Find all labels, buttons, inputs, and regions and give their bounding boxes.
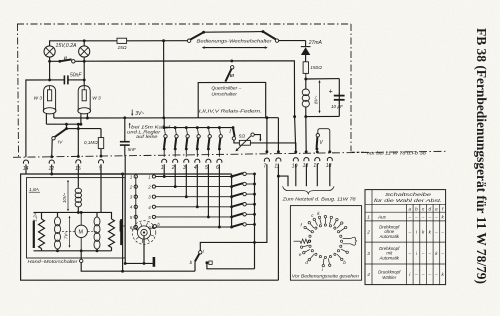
node lamp1/switch II	[48, 60, 51, 63]
node tube2 top junction	[83, 78, 86, 81]
node chassis 9	[100, 155, 103, 158]
motor switch blade 2	[230, 185, 233, 188]
capacitor bar bottom	[153, 257, 156, 267]
wire 0,1M to terminal 9	[100, 149, 102, 158]
node bus2 switch IV stub	[65, 123, 68, 126]
wire motor output stub	[80, 251, 82, 259]
terminal 6	[217, 159, 222, 163]
wire b down	[194, 261, 196, 271]
relay contact 1	[164, 128, 165, 135]
motor output contact	[80, 259, 83, 262]
lamp La1 15V 0,2A	[44, 46, 55, 57]
tube W3 left	[44, 86, 56, 111]
relay contact 4	[196, 126, 199, 129]
node bus1 wire7 junction	[265, 116, 268, 119]
relay contact 5	[207, 126, 210, 129]
node bus1 5nF junction	[123, 116, 126, 119]
chassis dash-dot line	[13, 151, 446, 157]
wire 7 drop	[266, 118, 268, 152]
wire IV pivot to 0,1M	[78, 128, 101, 130]
potentiometer 5 Ohm	[239, 140, 250, 145]
wire 11 branch to brace	[278, 176, 288, 186]
terminal 4	[195, 159, 200, 163]
wire switch II to lamp2	[75, 60, 84, 62]
switch II contact	[72, 60, 75, 63]
resistor 150 Ohm	[303, 62, 308, 74]
capacitor bar right	[120, 219, 122, 245]
wire i-contact up	[200, 242, 254, 250]
wire terminal 1 to matrix	[163, 164, 165, 176]
wire lamp2 top	[83, 41, 85, 46]
wire terminal 10 down	[295, 164, 297, 186]
wire 50nF right	[69, 79, 85, 81]
wire terminal 2 to matrix	[174, 164, 176, 186]
node V chassis 18	[328, 150, 331, 153]
node column top	[121, 173, 124, 176]
switch V contact	[316, 134, 319, 137]
wire terminal 15 down	[77, 164, 79, 188]
tube2 lead left	[80, 113, 82, 124]
wire coil box left down to terminal 10	[295, 117, 296, 152]
node tube2 right lead	[86, 117, 89, 120]
selector column wire	[135, 177, 137, 228]
wire lamp1 bottom	[49, 57, 51, 80]
node changeover left	[202, 31, 205, 34]
relay rail	[164, 127, 233, 129]
wire IV contact to terminal 12	[51, 140, 54, 158]
node lamp2 bottom junction	[83, 60, 86, 63]
winding right	[96, 212, 98, 217]
node matrix 2	[174, 185, 177, 188]
wire lamp2 down to tube2	[83, 57, 85, 86]
slider bar left	[33, 221, 35, 248]
contact a square	[209, 261, 212, 264]
wire terminal 9 down	[100, 164, 102, 212]
node matrix 6	[218, 226, 221, 229]
wire switch I to pot	[234, 140, 240, 143]
resistor right	[111, 212, 113, 219]
motor switch blade 3	[230, 195, 233, 198]
box Quecksilber-Umschalter	[198, 82, 266, 117]
chassis bar stub	[122, 225, 125, 227]
switch I contact	[232, 137, 235, 140]
node switch III top	[230, 59, 233, 62]
wire rectifier branch to chassis	[305, 117, 307, 152]
wire motor output down	[81, 263, 195, 272]
brace	[283, 186, 334, 193]
winding left	[57, 212, 59, 217]
terminal 15	[76, 160, 81, 164]
coil box top wire	[306, 78, 340, 80]
node coil box left corner	[293, 115, 296, 118]
node matrix 5	[207, 215, 210, 218]
wire column drop	[122, 174, 124, 271]
terminal 3	[184, 159, 189, 163]
dash-dot border left	[18, 24, 19, 157]
tube2 lead right	[86, 113, 88, 118]
terminal 17	[315, 157, 320, 161]
changeover blade left	[190, 32, 203, 39]
node column drop join	[121, 270, 124, 273]
dial contact ring	[324, 224, 326, 226]
wire terminal 18 down	[329, 164, 331, 187]
wire drop to relay rail	[163, 41, 165, 118]
motor switch blade 1	[230, 175, 233, 178]
node matrix 4	[196, 205, 199, 208]
relay contact 1 stub to bus1	[163, 118, 165, 128]
switch V bracket	[318, 129, 330, 152]
relay contact 2	[174, 126, 177, 129]
dimension arrow 10V	[67, 181, 69, 211]
resistor 0,1 MOhm	[98, 138, 103, 149]
capacitor 10uF	[338, 93, 340, 96]
node rectifier/chassis	[305, 150, 308, 153]
terminal 11	[276, 158, 281, 162]
node wire7 chassis	[265, 150, 268, 153]
contact a dot	[205, 261, 208, 264]
node lamp2 top	[83, 39, 86, 42]
wire cathode bus1	[54, 117, 279, 119]
capacitor 50nF	[63, 75, 65, 84]
lamp La2 15V 0,2A	[79, 46, 90, 57]
terminal 18	[327, 157, 332, 161]
node bus2 to terminal 15	[77, 127, 80, 130]
wire terminal 14 down	[25, 165, 27, 175]
switch IV contact	[52, 137, 55, 140]
coil box right wire	[338, 79, 340, 117]
dimension arrow 8V	[319, 81, 321, 113]
box dial	[290, 206, 361, 281]
dial resistor right	[343, 237, 357, 245]
resistor 15 Ohm	[117, 38, 127, 43]
wire terminal 3 to matrix	[185, 164, 187, 196]
motor switch blade 4	[230, 205, 233, 208]
switch IV stub	[66, 124, 68, 128]
box Hand-Motorschalter	[27, 178, 126, 258]
wire top rail	[50, 41, 117, 46]
node top wire / drop wire	[162, 39, 165, 42]
wire 5nF drop	[124, 118, 126, 142]
switch I blade	[233, 128, 235, 137]
rotary contact 6	[153, 225, 156, 228]
table grid	[365, 190, 446, 285]
resistor motor series 1,2A	[41, 212, 43, 219]
rotary switch	[132, 221, 156, 245]
wire motor unit mid rail	[34, 211, 113, 213]
changeover bridge wire	[204, 31, 263, 34]
wire selector to rotary	[136, 227, 138, 231]
node switch II pivot	[58, 60, 61, 63]
rectifier 27mA	[305, 41, 307, 47]
node matrix 1	[163, 175, 166, 178]
wire 7 lower	[255, 164, 267, 242]
terminal 14	[23, 160, 28, 164]
switch III blade	[225, 69, 231, 82]
node changeover right	[262, 30, 265, 33]
wire 11 lower	[277, 164, 279, 176]
terminal 9	[98, 160, 103, 164]
wire 11 continue	[277, 176, 279, 280]
terminal 7	[264, 158, 269, 162]
node V chassis 17	[316, 150, 319, 153]
node bus2 junction	[77, 123, 80, 126]
node matrix 3	[185, 195, 188, 198]
node wire 11 branch	[277, 175, 280, 178]
motor switch blade 5	[230, 215, 233, 218]
node coil box top	[304, 78, 307, 81]
chassis bar	[120, 221, 122, 232]
node bus1 contact1 junction	[162, 116, 165, 119]
wire IV pivot right	[67, 128, 79, 130]
wire motor unit bottom rail	[34, 250, 112, 252]
wire contact a to bus	[207, 263, 255, 269]
node pot out / chassis 10	[294, 150, 297, 153]
smoothing choke	[305, 79, 307, 90]
dimension arrow 7V	[69, 217, 71, 248]
node mid rail coil	[77, 211, 80, 214]
wire terminal 12 down	[51, 165, 53, 175]
wire terminal 17 down	[316, 164, 318, 186]
node switch V bottom	[315, 147, 318, 150]
wire pot wiper	[254, 135, 260, 141]
node tube1 top junction	[48, 78, 51, 81]
lower throw arrow line	[203, 47, 267, 49]
terminal 5	[206, 159, 211, 163]
note nur bei 11 W 78 u.Fb 38	[352, 151, 366, 153]
wire bus2 down to terminal 15	[77, 124, 79, 157]
wire 50nF rail	[26, 80, 50, 157]
wire motor leads	[80, 212, 82, 225]
relay contact 6	[218, 126, 221, 129]
coil box bottom wire	[306, 115, 340, 117]
relay contact 3	[185, 126, 188, 129]
dash-dot border top	[17, 23, 351, 25]
wire t12 rail to column	[52, 173, 123, 175]
wire 0,1M stub	[100, 129, 102, 138]
wire changeover to rectifier	[279, 40, 306, 42]
node bus junction	[253, 241, 256, 244]
node relay rail end	[232, 126, 235, 129]
wire V to terminal 17	[316, 149, 318, 152]
tube1 lead right	[53, 113, 55, 118]
dial resistor left	[294, 240, 301, 242]
switch V blade	[316, 137, 319, 148]
wire terminal 4 to matrix	[196, 164, 198, 207]
wire 50nF left	[50, 79, 64, 81]
wire 5nF below chassis	[124, 156, 126, 263]
switch b blade	[195, 254, 199, 262]
terminal 2	[173, 159, 178, 163]
wire 15 Ohm to changeover	[127, 40, 188, 42]
capacitor 5nF	[120, 141, 130, 143]
motor M	[75, 225, 87, 237]
wire pot output to terminal 10	[250, 143, 295, 152]
wire to cap bar	[125, 262, 152, 264]
node chassis 12	[50, 155, 53, 158]
changeover switch left contact	[187, 39, 190, 42]
wire bus2	[46, 123, 81, 125]
changeover blade right	[263, 32, 276, 40]
switch III contact	[231, 66, 234, 69]
tube1 lead left	[45, 113, 47, 124]
wire switch II rail to coil box	[84, 61, 294, 117]
blade bus	[254, 174, 256, 269]
tube W3 right	[78, 86, 90, 111]
node 5nF line bottom	[124, 262, 127, 265]
dash-dot border right	[350, 24, 352, 152]
switch i contact	[199, 251, 202, 254]
terminal 13	[304, 158, 309, 162]
node coil box bottom	[304, 115, 307, 118]
node tube2 left lead	[79, 123, 82, 126]
wire terminal 6 to matrix	[218, 164, 220, 227]
node t12 box	[50, 173, 53, 176]
pot wiper contact	[251, 133, 254, 136]
wire rotary wiper down	[143, 236, 145, 263]
changeover right contact	[275, 39, 278, 42]
switch II blade	[60, 59, 72, 61]
node chassis 15	[77, 155, 80, 158]
box motor unit outer	[21, 174, 279, 280]
switch IV blade	[55, 129, 67, 137]
node wire11 chassis	[277, 150, 280, 153]
wire terminal 5 to matrix	[207, 164, 209, 217]
wire terminal 13 down	[305, 164, 307, 186]
wire 11 drop	[277, 118, 279, 152]
motor switch blade 6	[230, 226, 233, 229]
wire switch II feed	[50, 60, 60, 62]
terminal 12	[49, 160, 54, 164]
transformer winding top	[75, 188, 81, 193]
node switch IV pivot	[65, 127, 68, 130]
terminal 10	[293, 158, 298, 162]
terminal 1	[162, 159, 167, 163]
node relay contact 1 rail	[163, 126, 166, 129]
